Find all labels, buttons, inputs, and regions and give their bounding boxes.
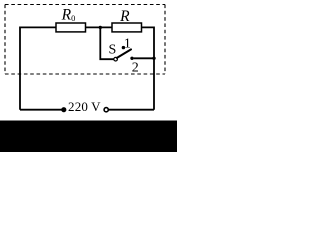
wire bottom-left xyxy=(20,109,62,111)
wire R0 to R through node xyxy=(86,26,113,28)
dashed enclosure box xyxy=(5,5,165,75)
svg-text:1: 1 xyxy=(124,37,131,52)
switch S pivot xyxy=(114,57,118,61)
svg-text:2: 2 xyxy=(132,60,139,75)
svg-text:220 V: 220 V xyxy=(68,99,101,114)
terminal right xyxy=(104,108,108,112)
wire branch down to switch xyxy=(100,27,113,59)
black bar xyxy=(0,121,177,153)
contact 1 xyxy=(122,46,125,49)
svg-text:R: R xyxy=(119,8,130,25)
wire bottom-right xyxy=(108,109,154,111)
wire R to right rail, right rail down xyxy=(142,27,155,109)
svg-text:S: S xyxy=(109,42,117,57)
terminal left xyxy=(62,108,66,112)
resistor R xyxy=(112,23,142,32)
switch arm xyxy=(117,49,131,58)
node junction right xyxy=(152,57,155,60)
contact 2 xyxy=(130,57,133,60)
wire left rail + top-left segment xyxy=(20,27,56,109)
svg-text:R0: R0 xyxy=(61,7,76,24)
resistor R0 xyxy=(56,23,86,32)
node junction top xyxy=(99,26,102,29)
wire contact2 to right rail xyxy=(134,57,154,59)
